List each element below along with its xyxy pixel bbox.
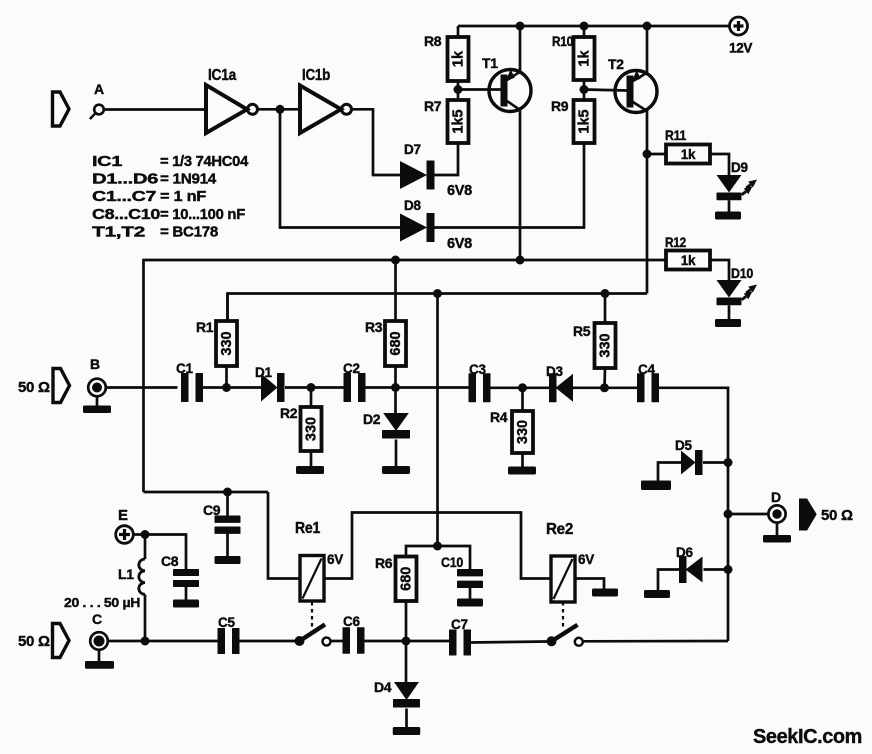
svg-text:1k: 1k	[577, 50, 593, 67]
ground (C10)	[457, 599, 483, 607]
svg-text:D5: D5	[675, 438, 692, 453]
ground (R4)	[508, 467, 536, 475]
diode D3	[549, 373, 573, 402]
svg-text:D3: D3	[546, 364, 563, 379]
svg-text:50 Ω: 50 Ω	[821, 507, 853, 524]
wire C ground	[98, 650, 101, 661]
capacitor C10	[457, 569, 483, 588]
svg-text:Re2: Re2	[546, 521, 573, 538]
wire C1 to D1	[200, 386, 262, 389]
wire C4 to output branch	[656, 388, 729, 641]
relay switch S2	[547, 625, 583, 647]
svg-text:= 1/3 74HC04: = 1/3 74HC04	[160, 153, 249, 170]
svg-text:330: 330	[515, 420, 531, 444]
label Re2	[546, 521, 573, 538]
wire rail to T1 emitter	[519, 26, 522, 72]
ground (D6)	[644, 590, 670, 598]
svg-text:R5: R5	[573, 323, 591, 339]
wire D5 anode to ground	[658, 463, 681, 481]
ground (D4)	[393, 727, 421, 735]
svg-text:C: C	[92, 611, 102, 627]
label D8	[404, 198, 421, 213]
junction node bus1-T1	[516, 256, 525, 265]
output arrow D	[800, 500, 816, 530]
label R1	[196, 319, 214, 335]
wire T1 collector bus	[144, 260, 667, 492]
label C3	[469, 362, 486, 377]
label R12	[665, 234, 686, 250]
inverter IC1a	[206, 85, 258, 133]
label C4	[638, 362, 655, 377]
label D2	[363, 411, 381, 427]
wire IC1a to IC1b	[258, 108, 300, 111]
label D9	[731, 160, 748, 175]
svg-text:6V8: 6V8	[447, 236, 472, 252]
wire D ground	[776, 523, 779, 536]
label IC1b	[302, 67, 330, 84]
svg-text:1k5: 1k5	[451, 109, 467, 133]
svg-text:SeekIC.com: SeekIC.com	[753, 725, 862, 748]
wire D2 to ground	[395, 440, 398, 467]
junction node R6-C10	[433, 542, 442, 551]
label R8	[424, 33, 442, 49]
watermark SeekIC.com	[753, 725, 862, 748]
svg-text:T2: T2	[608, 56, 624, 72]
junction node bus2-R6	[433, 289, 442, 298]
wire +12V power rail	[458, 25, 729, 28]
wire L1 bottom stem	[144, 594, 147, 641]
svg-text:D6: D6	[676, 545, 693, 560]
junction node rail-R10	[580, 22, 589, 31]
svg-text:C6: C6	[343, 614, 360, 629]
wire rail to R10	[583, 26, 586, 37]
wire C to C5	[108, 640, 218, 643]
junction node D5	[724, 458, 733, 467]
resistor R5	[595, 323, 616, 368]
wire R6 top link	[406, 546, 470, 570]
svg-text:R10: R10	[552, 33, 573, 49]
relay coil Re2	[551, 556, 575, 602]
svg-text:C4: C4	[638, 362, 655, 377]
wire D4 to ground	[405, 709, 408, 728]
label C10	[441, 554, 463, 570]
supply terminal +12V	[730, 17, 748, 35]
wire C5 to switch1	[240, 640, 296, 643]
svg-text:R7: R7	[424, 98, 442, 114]
wire T1 collector	[519, 110, 522, 261]
ground (D)	[763, 535, 791, 543]
relay contact dashed link Re2	[562, 602, 564, 628]
svg-text:D1: D1	[255, 365, 272, 380]
label C8	[161, 553, 179, 569]
inductor L1	[139, 559, 145, 594]
relay contact dashed link Re1	[311, 602, 313, 628]
wire rail to T2 emitter	[646, 26, 649, 73]
junction node C9 tap	[223, 488, 232, 497]
label 50 ohm (C)	[18, 633, 50, 650]
wire bus2 to R6 node	[436, 294, 439, 547]
label D3	[546, 364, 563, 379]
capacitor C7	[449, 630, 471, 656]
svg-text:R12: R12	[665, 234, 686, 250]
svg-text:C8...C10: C8...C10	[92, 206, 160, 223]
svg-text:T1,T2: T1,T2	[92, 223, 145, 240]
label C7	[451, 617, 468, 632]
wire R8 to R7	[457, 81, 460, 100]
svg-text:= BC178: = BC178	[160, 223, 218, 240]
svg-text:1k: 1k	[681, 147, 696, 162]
wire R1 to B-line	[225, 366, 228, 388]
resistor R9	[574, 100, 595, 143]
resistor R3	[385, 321, 406, 366]
relay switch S1	[295, 625, 331, 647]
wire C9 to ground	[226, 534, 229, 557]
svg-text:330: 330	[304, 417, 320, 441]
label C	[92, 611, 102, 627]
label E	[118, 507, 128, 524]
zener diode D7	[400, 161, 435, 190]
label C9	[203, 502, 221, 518]
ground (D9)	[715, 212, 741, 220]
wire T2 to R11	[647, 153, 666, 156]
svg-text:C3: C3	[469, 362, 486, 377]
wire B to C1	[106, 386, 178, 389]
svg-text:R8: R8	[424, 33, 442, 49]
label B	[90, 356, 100, 372]
label T1	[482, 55, 498, 71]
wire T2 collector bus	[228, 294, 648, 322]
wire R2 stem	[310, 388, 313, 408]
svg-text:C2: C2	[343, 361, 360, 376]
svg-text:C8: C8	[161, 553, 179, 569]
wire bus2 to R1	[226, 294, 229, 322]
transistor T1	[489, 69, 531, 111]
wire switch2 to output branch	[583, 640, 728, 643]
wire D4 stem	[405, 641, 408, 683]
label R3	[365, 319, 383, 335]
capacitor C5	[218, 628, 240, 654]
svg-text:C7: C7	[451, 617, 468, 632]
label D7	[404, 142, 421, 157]
wire base T1	[458, 88, 501, 91]
junction node D6	[724, 565, 733, 574]
wire R4 stem	[521, 388, 524, 411]
wire D6 cathode to ground	[658, 570, 679, 591]
label R5	[573, 323, 591, 339]
svg-text:E: E	[118, 507, 128, 524]
inverter IC1b	[300, 86, 352, 134]
resistor R11	[666, 145, 710, 164]
junction node L1 bottom	[141, 637, 150, 646]
label IC1a	[208, 67, 237, 84]
ground (Re2)	[592, 589, 618, 597]
resistor R1	[216, 321, 237, 366]
svg-text:C1...C7: C1...C7	[92, 188, 156, 205]
junction node R1 tap	[222, 383, 231, 392]
svg-text:L1: L1	[118, 566, 134, 582]
label D4	[374, 679, 392, 695]
LED D9	[717, 175, 758, 200]
wire node D to terminal	[728, 513, 769, 516]
ground (C9)	[215, 556, 241, 564]
label D6	[676, 545, 693, 560]
wire IC1b output to D7	[352, 109, 400, 175]
junction node E-L1	[141, 530, 150, 539]
svg-text:6V8: 6V8	[447, 183, 472, 199]
label R6	[375, 555, 393, 571]
transistor T2	[615, 70, 657, 112]
wire D10 to ground	[728, 305, 731, 319]
input arrow C	[53, 624, 70, 658]
input arrow B	[53, 369, 70, 403]
ground (R2)	[296, 466, 324, 474]
terminal C	[90, 632, 108, 650]
wire D3 to C4	[573, 386, 639, 389]
svg-text:D: D	[771, 489, 781, 505]
wire R11 to D9	[710, 154, 729, 176]
junction node D output	[724, 510, 733, 519]
capacitor C3	[469, 373, 491, 402]
label R9	[551, 98, 569, 114]
wire D6 to node	[704, 568, 729, 571]
svg-text:1k5: 1k5	[577, 109, 593, 133]
ground (C8)	[173, 600, 199, 608]
label R7	[424, 98, 442, 114]
wire C8 to ground	[185, 587, 188, 600]
svg-text:B: B	[90, 356, 100, 372]
label 50 ohm (D)	[821, 507, 853, 524]
resistor R7	[448, 100, 469, 143]
label 12V	[729, 41, 752, 56]
label 6V (Re2)	[578, 552, 594, 567]
wire base T2	[584, 90, 627, 91]
label D5	[675, 438, 692, 453]
parts list text	[92, 153, 249, 240]
wire C10 to ground	[469, 588, 472, 599]
junction node IC1a output	[276, 105, 285, 114]
svg-text:R9: R9	[551, 98, 569, 114]
svg-text:D9: D9	[731, 160, 748, 175]
wire bus2 to R5	[604, 294, 607, 324]
wire C2 to C3	[362, 386, 470, 389]
label C1	[176, 361, 193, 376]
wire R3 to B-line	[394, 366, 397, 388]
svg-text:R3: R3	[365, 319, 383, 335]
terminal A	[90, 105, 104, 119]
wire C7 to switch2	[471, 642, 548, 643]
svg-text:IC1a: IC1a	[208, 67, 237, 84]
svg-text:680: 680	[399, 567, 415, 591]
wire D1 to C2	[285, 386, 346, 389]
diode D2	[382, 413, 410, 439]
ground (D2)	[382, 466, 410, 474]
LED D10	[717, 280, 758, 305]
terminal D	[768, 505, 785, 522]
junction node R5 tap	[600, 383, 609, 392]
wire E to C8	[133, 535, 186, 570]
wire D5 to node	[703, 461, 728, 464]
label Re1	[295, 520, 321, 537]
input arrow A	[53, 92, 70, 126]
svg-text:D7: D7	[404, 142, 421, 157]
wire rail to R8	[457, 26, 460, 37]
wire C9 stem	[226, 492, 229, 516]
resistor R10	[574, 37, 595, 80]
label R10	[552, 33, 573, 49]
wire to Re1 coil	[268, 492, 300, 579]
label A	[94, 81, 104, 97]
diode D4	[393, 682, 420, 708]
wire A to IC1a	[104, 108, 206, 111]
junction node T2-R11	[643, 150, 652, 159]
wire C6 to C7	[362, 640, 451, 643]
svg-text:330: 330	[598, 333, 614, 357]
svg-text:D10: D10	[731, 266, 753, 281]
capacitor C4	[637, 373, 659, 402]
resistor R12	[666, 251, 710, 270]
wire T2 collector	[646, 111, 649, 294]
label 6V8 (D8)	[447, 236, 472, 252]
label R2	[280, 405, 298, 421]
label 6V8 (D7)	[447, 183, 472, 199]
svg-text:6V: 6V	[327, 552, 343, 567]
svg-text:C9: C9	[203, 502, 221, 518]
svg-text:C10: C10	[441, 554, 463, 570]
resistor R2	[301, 407, 322, 451]
svg-text:Re1: Re1	[295, 520, 321, 537]
wire R10 to R9	[583, 80, 586, 100]
wire Re1 to Re2 coil link	[324, 513, 551, 579]
svg-text:C1: C1	[176, 361, 193, 376]
svg-text:= 1 nF: = 1 nF	[160, 188, 206, 205]
wire C3 to D3	[487, 386, 549, 389]
wire switch1 to C6	[331, 640, 345, 643]
label L1	[118, 566, 134, 582]
label 6V (Re1)	[327, 552, 343, 567]
label D	[771, 489, 781, 505]
ground (C)	[85, 661, 114, 669]
svg-text:330: 330	[219, 331, 235, 355]
diode D5	[681, 450, 703, 475]
wire B ground	[96, 396, 99, 405]
junction node R10-R9	[580, 85, 589, 94]
svg-text:680: 680	[388, 331, 404, 355]
svg-text:1k: 1k	[681, 253, 696, 268]
svg-text:R4: R4	[490, 409, 508, 425]
capacitor C9	[215, 516, 241, 534]
junction node bus2-R5	[601, 289, 610, 298]
wire node to D8	[280, 109, 400, 227]
zener diode D8	[400, 213, 435, 242]
svg-text:R6: R6	[375, 555, 393, 571]
svg-text:R2: R2	[280, 405, 298, 421]
wire Re2 to ground	[575, 579, 604, 589]
ground (D10)	[715, 319, 741, 327]
label 50 ohm (B)	[18, 379, 50, 396]
resistor R8	[448, 37, 469, 81]
wire D7 to R7	[435, 143, 459, 175]
wire bus1 to R3	[394, 260, 397, 321]
capacitor C2	[344, 373, 366, 402]
svg-text:= 10...100 nF: = 10...100 nF	[160, 206, 245, 223]
svg-text:C5: C5	[218, 615, 235, 630]
svg-text:R11: R11	[665, 127, 686, 143]
svg-text:R1: R1	[196, 319, 214, 335]
ground (B)	[83, 406, 111, 414]
svg-text:D2: D2	[363, 411, 381, 427]
terminal B	[88, 379, 106, 397]
junction node R3-D2 tap	[391, 383, 400, 392]
wire R5 to B-line	[603, 368, 606, 388]
svg-text:20 . . . 50 µH: 20 . . . 50 µH	[64, 595, 140, 610]
wire C9 feed line	[144, 491, 269, 494]
capacitor C6	[343, 627, 365, 654]
resistor R4	[512, 411, 533, 453]
relay coil Re1	[300, 556, 324, 602]
svg-text:12V: 12V	[729, 41, 752, 56]
capacitor C1	[181, 373, 203, 402]
label C2	[343, 361, 360, 376]
svg-text:50 Ω: 50 Ω	[18, 633, 50, 650]
wire D8 to R9	[435, 143, 585, 228]
junction node rail-T1	[516, 22, 525, 31]
terminal E	[116, 526, 134, 544]
diode D6	[679, 556, 703, 583]
diode D1	[261, 373, 285, 402]
svg-text:A: A	[94, 81, 104, 97]
junction node rail-T2	[643, 22, 652, 31]
ground (D5)	[641, 481, 671, 491]
junction node R2 tap	[307, 383, 316, 392]
svg-text:D1...D6: D1...D6	[92, 171, 158, 188]
svg-text:D4: D4	[374, 679, 392, 695]
label D10	[731, 266, 753, 281]
svg-text:1k: 1k	[451, 50, 467, 67]
label C5	[218, 615, 235, 630]
wire R2 to ground	[310, 451, 313, 466]
svg-text:D8: D8	[404, 198, 421, 213]
svg-text:50 Ω: 50 Ω	[18, 379, 50, 396]
junction node bus1-R3	[391, 256, 400, 265]
wire R6 bottom	[405, 601, 408, 641]
capacitor C8	[173, 569, 199, 587]
junction node R4 tap	[518, 383, 527, 392]
svg-text:IC1b: IC1b	[302, 67, 330, 84]
label T2	[608, 56, 624, 72]
svg-text:6V: 6V	[578, 552, 594, 567]
wire R12 to D10	[710, 260, 729, 281]
junction node R8-R7	[454, 85, 463, 94]
label 20...50 uH	[64, 595, 140, 610]
label C6	[343, 614, 360, 629]
label D1	[255, 365, 272, 380]
wire D9 to ground	[728, 200, 731, 211]
svg-text:IC1: IC1	[92, 153, 123, 170]
label R11	[665, 127, 686, 143]
junction node R6-D4	[402, 637, 411, 646]
svg-text:= 1N914: = 1N914	[160, 171, 217, 188]
resistor R6	[396, 557, 417, 602]
wire R4 to ground	[521, 453, 524, 467]
svg-text:T1: T1	[482, 55, 498, 71]
label R4	[490, 409, 508, 425]
wire L1 top stem	[144, 535, 147, 560]
wire D2 stem	[394, 388, 397, 414]
